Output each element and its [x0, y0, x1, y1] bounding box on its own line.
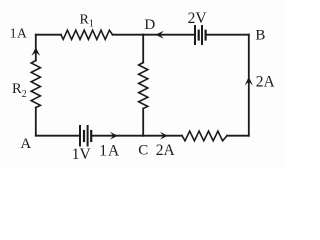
svg-text:C: C: [138, 142, 148, 158]
wire R1 to D junction: [113, 34, 144, 36]
resistor R2: [31, 61, 40, 108]
svg-text:1A: 1A: [10, 25, 28, 40]
arrow right on bottom wire (1A into C): [110, 132, 118, 140]
wire left side top (corner to R2): [35, 35, 37, 61]
resistor R1: [61, 30, 113, 39]
arrow right on bottom wire (2A out of C): [160, 132, 168, 140]
svg-text:R1: R1: [80, 12, 94, 29]
arrow left on top wire near D: [155, 31, 163, 39]
wire middle top (D to middle resistor): [142, 35, 144, 63]
resistor bottom-right: [182, 131, 227, 141]
svg-text:D: D: [144, 17, 155, 33]
svg-text:1V: 1V: [72, 146, 92, 163]
wire left side bottom (R2 to node A): [35, 108, 37, 136]
resistor middle (between D and C): [139, 63, 148, 109]
svg-text:1A: 1A: [99, 143, 120, 160]
wire bottom-right resistor to corner: [227, 135, 249, 137]
svg-text:B: B: [255, 27, 265, 43]
arrow up on right wire (current 2A): [245, 77, 253, 86]
battery 2V plates: [195, 26, 206, 44]
svg-text:2A: 2A: [256, 73, 276, 90]
wire top-left segment (node 1A corner to R1): [36, 34, 61, 36]
wire bottom: A to battery 1V: [36, 135, 79, 137]
wire D to battery 2V: [143, 34, 194, 36]
wire battery 2V to node B: [206, 34, 249, 36]
wire middle bottom (resistor to C): [142, 109, 144, 136]
svg-text:2A: 2A: [156, 142, 176, 159]
svg-text:2V: 2V: [188, 10, 208, 27]
wire right side (B to bottom-right corner): [248, 35, 250, 136]
svg-text:A: A: [20, 136, 31, 152]
arrow up on left wire (current 1A): [32, 47, 41, 56]
battery 1V plates: [80, 126, 91, 146]
wire C to bottom-right resistor: [143, 135, 182, 137]
wire battery 1V to C: [91, 135, 143, 137]
svg-text:R2: R2: [12, 81, 27, 100]
